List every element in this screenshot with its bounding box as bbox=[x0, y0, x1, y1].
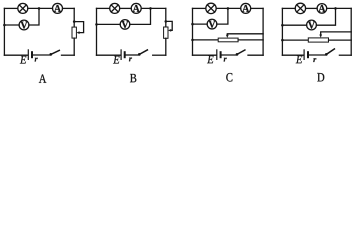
ammeter (D) bbox=[317, 4, 327, 14]
node: junction dot on C top wire bbox=[227, 7, 230, 10]
rheostat R (D): slider arm bbox=[321, 32, 352, 35]
wire: A voltmeter branch right + riser bbox=[29, 8, 39, 25]
voltmeter (B) bbox=[120, 20, 130, 30]
rheostat R (D): body bbox=[308, 38, 328, 42]
battery E,r (B): short plate bbox=[124, 52, 126, 57]
switch S (A): left contact dot bbox=[49, 53, 52, 56]
wire: D voltmeter branch left bbox=[282, 24, 306, 26]
lamp (D) bbox=[295, 3, 305, 13]
wire: C bottom right segment bbox=[248, 54, 263, 56]
battery E,r (D): short plate bbox=[307, 52, 309, 57]
switch S (A): blade bbox=[51, 50, 60, 54]
label: answer choice B bbox=[130, 74, 136, 82]
battery E,r (C): long plate bbox=[216, 50, 218, 60]
battery E,r (B): long plate bbox=[120, 50, 122, 60]
lamp (B) bbox=[110, 3, 120, 13]
wire: A voltmeter branch left bbox=[4, 24, 19, 26]
rheostat R (C): slider arm bbox=[227, 34, 263, 35]
wire: B left vertical bbox=[96, 8, 98, 55]
wire: C top-left segment bbox=[193, 7, 206, 9]
switch S (C): blade bbox=[237, 50, 245, 54]
wire: A bottom mid segment bbox=[33, 54, 50, 56]
wire: D rheostat row right bbox=[329, 39, 352, 41]
wire: B voltmeter branch left bbox=[97, 23, 121, 25]
wire: C bottom left segment bbox=[193, 54, 217, 56]
wire: D bottom right segment bbox=[339, 54, 351, 56]
wire: D bottom mid segment bbox=[309, 54, 326, 56]
rheostat R (A): body bbox=[72, 27, 76, 38]
wire: C rheostat row right bbox=[238, 39, 263, 41]
rheostat R (A): slider arm bbox=[74, 22, 83, 33]
wire: A bottom left segment bbox=[4, 54, 27, 56]
wire: B bottom right segment bbox=[153, 54, 166, 56]
wire: C right vertical bbox=[262, 8, 264, 55]
wire: D rheostat row left bbox=[282, 39, 308, 41]
wire: C rheostat row left bbox=[193, 39, 219, 41]
node: dot at B rheostat slider tap bbox=[165, 20, 168, 23]
ammeter (B) bbox=[131, 3, 141, 13]
wire: A top right segment bbox=[63, 7, 75, 9]
label E (D) bbox=[296, 56, 302, 64]
label: answer choice C bbox=[226, 73, 232, 81]
switch S (B): left contact dot bbox=[138, 53, 141, 56]
lamp (C) bbox=[206, 3, 216, 13]
label E (C) bbox=[207, 56, 213, 64]
wire: A top-left segment bbox=[4, 7, 17, 9]
wire: D top mid segment bbox=[306, 7, 318, 9]
lamp (A) bbox=[18, 3, 28, 13]
label E (B) bbox=[113, 56, 119, 64]
wire: D left vertical bbox=[281, 8, 283, 55]
wire: B top mid segment bbox=[120, 7, 132, 9]
node: junction dot on D top wire bbox=[334, 7, 337, 10]
wire: D voltmeter branch right + riser bbox=[316, 8, 335, 25]
battery E,r (C): short plate bbox=[220, 52, 222, 57]
node: dot at C rheostat row (left) bbox=[191, 39, 194, 42]
node: dot at D rheostat row (left) bbox=[281, 39, 284, 42]
wire: C top mid segment bbox=[216, 7, 241, 9]
wire: A right vertical upper bbox=[73, 8, 75, 27]
wire: C bottom mid segment bbox=[222, 54, 237, 56]
ammeter (C) bbox=[241, 3, 251, 13]
wire: B top right segment bbox=[141, 7, 166, 9]
node: dot at A rheostat slider tap bbox=[73, 20, 76, 23]
wire: B right vertical upper bbox=[165, 8, 167, 27]
voltmeter (A) bbox=[19, 20, 29, 30]
wire: C voltmeter branch left bbox=[193, 23, 208, 25]
wire: B bottom left segment bbox=[97, 54, 121, 56]
battery E,r (A): short plate bbox=[31, 52, 33, 57]
wire: C voltmeter branch right + riser bbox=[217, 8, 228, 24]
wire: D top right segment bbox=[327, 7, 352, 9]
wire: B right vertical lower bbox=[165, 38, 167, 55]
label r (D) bbox=[313, 58, 316, 62]
wire: A left vertical bbox=[3, 8, 5, 55]
label E (A) bbox=[20, 56, 26, 64]
label r (A) bbox=[35, 58, 38, 62]
wire: A right vertical lower bbox=[73, 38, 75, 55]
wire: A bottom right segment bbox=[62, 54, 75, 56]
battery E,r (D): long plate bbox=[303, 50, 305, 60]
wire: D top-left segment bbox=[282, 7, 295, 9]
label: answer choice D bbox=[317, 73, 324, 81]
node: dot at B voltmeter tap (left) bbox=[95, 23, 98, 26]
rheostat R (B): slider arm bbox=[166, 21, 172, 30]
voltmeter (C) bbox=[207, 19, 217, 29]
node: dot at A voltmeter tap (left) bbox=[3, 24, 6, 27]
switch S (D): left contact dot bbox=[325, 53, 328, 56]
wire: A top mid segment bbox=[28, 7, 53, 9]
wire: C left vertical bbox=[192, 8, 194, 55]
voltmeter (D) bbox=[307, 20, 317, 30]
battery E,r (A): long plate bbox=[27, 50, 29, 60]
node: junction dot on A top wire bbox=[38, 7, 41, 10]
switch S (D): blade bbox=[326, 49, 334, 55]
wire: D bottom left segment bbox=[282, 54, 303, 56]
switch S (C): left contact dot bbox=[236, 53, 239, 56]
wire: C top right segment bbox=[251, 7, 263, 9]
rheostat R (C): body bbox=[218, 38, 238, 42]
wire: D right vertical bbox=[350, 8, 352, 55]
node: junction dot on B top wire bbox=[149, 7, 152, 10]
switch S (B): blade bbox=[139, 50, 147, 55]
wire: B bottom mid segment bbox=[126, 54, 139, 56]
node: dot at D voltmeter tap (left) bbox=[281, 24, 284, 27]
label: answer choice A bbox=[39, 74, 46, 82]
label r (B) bbox=[129, 58, 132, 62]
rheostat R (B): body bbox=[164, 27, 168, 38]
wire: B top-left segment bbox=[97, 7, 110, 9]
label r (C) bbox=[224, 58, 227, 62]
node: dot at C voltmeter tap (left) bbox=[191, 23, 194, 26]
wire: B voltmeter branch right + riser bbox=[130, 8, 151, 24]
ammeter (A) bbox=[53, 3, 63, 13]
